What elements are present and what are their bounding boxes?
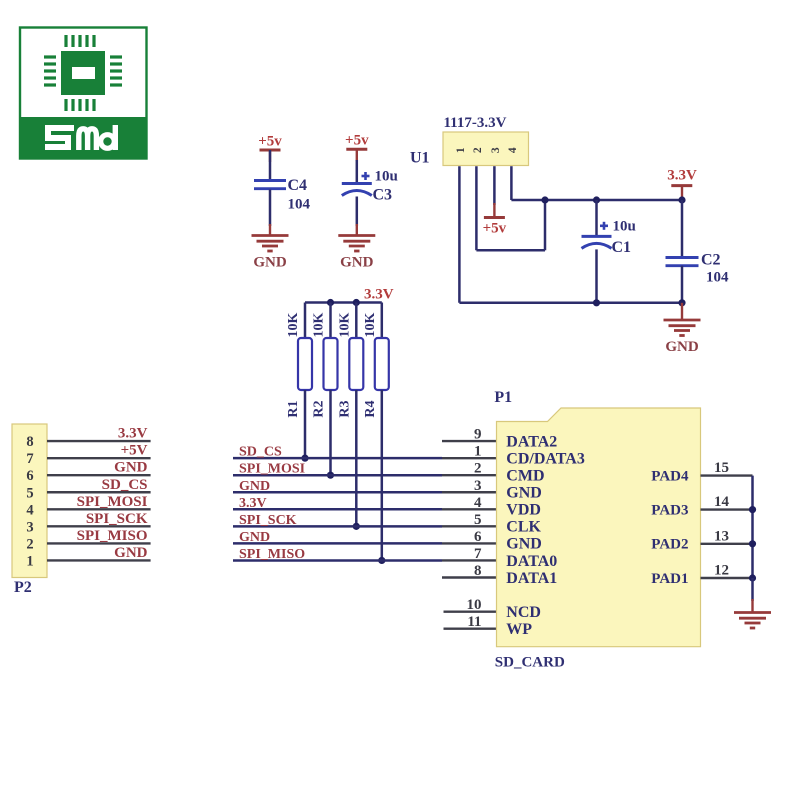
svg-text:3.3V: 3.3V: [118, 426, 148, 442]
svg-text:GND: GND: [340, 255, 374, 271]
svg-text:3: 3: [490, 147, 502, 153]
svg-text:GND: GND: [239, 530, 270, 545]
svg-text:5: 5: [26, 485, 33, 501]
svg-text:SPI_MISO: SPI_MISO: [239, 547, 305, 562]
svg-text:7: 7: [26, 451, 33, 467]
svg-text:CD/DATA3: CD/DATA3: [506, 450, 585, 467]
svg-text:GND: GND: [506, 485, 542, 502]
svg-text:+5V: +5V: [121, 443, 148, 459]
svg-text:P2: P2: [14, 579, 32, 596]
svg-text:+5v: +5v: [258, 134, 282, 150]
svg-text:12: 12: [714, 563, 729, 579]
svg-text:10K: 10K: [337, 312, 352, 337]
svg-text:4: 4: [474, 495, 482, 511]
svg-text:10K: 10K: [363, 312, 378, 337]
svg-text:GND: GND: [114, 545, 148, 561]
svg-text:15: 15: [714, 460, 729, 476]
svg-text:SD_CS: SD_CS: [102, 477, 148, 493]
svg-text:R2: R2: [312, 400, 327, 417]
svg-text:6: 6: [26, 468, 33, 484]
svg-text:1: 1: [474, 444, 482, 460]
svg-text:SPI_SCK: SPI_SCK: [86, 511, 148, 527]
svg-text:GND: GND: [253, 255, 287, 271]
svg-text:10K: 10K: [312, 312, 327, 337]
svg-text:C2: C2: [701, 252, 721, 269]
svg-text:SD_CS: SD_CS: [239, 445, 282, 460]
svg-text:R4: R4: [363, 400, 378, 417]
svg-text:4: 4: [26, 502, 33, 518]
svg-text:DATA0: DATA0: [506, 553, 557, 570]
svg-text:C4: C4: [288, 177, 308, 194]
svg-text:NCD: NCD: [506, 604, 541, 621]
svg-text:3.3V: 3.3V: [239, 496, 267, 511]
svg-text:104: 104: [706, 270, 729, 286]
svg-text:PAD1: PAD1: [651, 571, 688, 587]
svg-text:3: 3: [474, 478, 482, 494]
svg-text:PAD2: PAD2: [651, 537, 688, 553]
svg-text:5: 5: [474, 512, 482, 528]
svg-text:U1: U1: [410, 150, 430, 167]
svg-text:C3: C3: [373, 187, 393, 204]
svg-text:GND: GND: [665, 339, 699, 355]
svg-text:PAD4: PAD4: [651, 468, 689, 484]
svg-text:GND: GND: [506, 536, 542, 553]
svg-text:GND: GND: [114, 460, 148, 476]
svg-text:WP: WP: [506, 621, 532, 638]
svg-text:R1: R1: [286, 400, 301, 417]
svg-text:SPI_MOSI: SPI_MOSI: [77, 494, 148, 510]
svg-text:GND: GND: [239, 479, 270, 494]
svg-text:3: 3: [26, 519, 33, 535]
svg-text:3.3V: 3.3V: [667, 168, 697, 184]
svg-text:10K: 10K: [286, 312, 301, 337]
svg-text:4: 4: [507, 147, 519, 153]
svg-text:CLK: CLK: [506, 519, 541, 536]
svg-text:SPI_SCK: SPI_SCK: [239, 513, 297, 528]
svg-text:C1: C1: [612, 239, 632, 256]
svg-text:PAD3: PAD3: [651, 502, 688, 518]
svg-text:10u: 10u: [375, 169, 398, 185]
svg-text:SD_CARD: SD_CARD: [495, 655, 565, 671]
svg-text:CMD: CMD: [506, 468, 544, 485]
svg-text:2: 2: [472, 147, 484, 153]
svg-text:1117-3.3V: 1117-3.3V: [444, 115, 507, 131]
svg-text:8: 8: [474, 563, 482, 579]
svg-text:6: 6: [474, 529, 482, 545]
svg-text:10: 10: [467, 597, 482, 613]
svg-text:DATA1: DATA1: [506, 570, 557, 587]
svg-text:7: 7: [474, 546, 482, 562]
svg-text:2: 2: [474, 461, 482, 477]
svg-text:10u: 10u: [613, 219, 636, 235]
svg-text:9: 9: [474, 427, 482, 443]
svg-text:+5v: +5v: [483, 221, 507, 237]
svg-text:R3: R3: [337, 400, 352, 417]
svg-text:SPI_MOSI: SPI_MOSI: [239, 462, 305, 477]
svg-text:3.3V: 3.3V: [364, 287, 394, 303]
svg-text:1: 1: [455, 147, 467, 153]
svg-text:P1: P1: [494, 389, 512, 406]
svg-text:VDD: VDD: [506, 502, 541, 519]
svg-text:14: 14: [714, 494, 730, 510]
svg-text:104: 104: [288, 197, 311, 213]
svg-text:1: 1: [26, 553, 33, 569]
svg-text:SPI_MISO: SPI_MISO: [77, 528, 148, 544]
svg-text:DATA2: DATA2: [506, 433, 557, 450]
svg-text:2: 2: [26, 536, 33, 552]
svg-text:11: 11: [467, 614, 481, 630]
svg-text:13: 13: [714, 528, 729, 544]
svg-text:+5v: +5v: [345, 133, 369, 149]
svg-text:8: 8: [26, 434, 33, 450]
